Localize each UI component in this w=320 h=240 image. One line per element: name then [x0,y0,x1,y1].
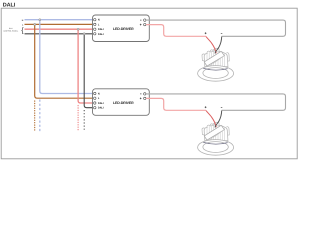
driver 2 terminal minus [140,93,146,95]
dotted continuation DALI red [77,106,79,131]
downlight luminaire 1 [198,48,234,81]
wire DALI red branch to driver 2 [78,29,93,103]
driver 1 terminal DALI 2 [94,33,104,36]
downlight luminaire 2 [198,122,234,155]
LED driver 1 [93,15,150,42]
luminaire 1 black lead [215,37,222,54]
driver 2 terminal DALI 2 [94,107,104,110]
driver 1 terminal DALI [94,28,104,31]
svg-text:DALI: DALI [98,107,104,110]
wire LED minus run 2 (gray) [146,94,285,110]
driver 2 terminal L [94,97,100,100]
dashed continuation N (blue) [39,100,41,132]
wire LED plus run 1 (pink) [146,25,206,37]
label plus at luminaire 2 [205,106,207,108]
wire L horizontal (brown) [25,23,94,25]
svg-text:DALI: DALI [98,102,104,105]
svg-text:DALI: DALI [3,2,16,8]
driver 2 terminal plus [140,97,146,99]
svg-text:DALI: DALI [98,28,104,31]
junction node N [39,19,41,21]
svg-text:N: N [98,19,100,22]
svg-text:CONTROL SIGNAL: CONTROL SIGNAL [3,30,18,33]
svg-text:DALI: DALI [98,33,104,36]
wire N horizontal (blue) [25,19,94,21]
luminaire 2 black lead [215,111,222,128]
wire LED plus run 2 (pink) [146,98,206,110]
wire DALI horizontal (red) [25,28,94,30]
driver 2 terminal DALI [94,102,104,105]
driver 1 terminal plus [140,23,146,25]
svg-text:LED-DRIVER: LED-DRIVER [113,27,134,31]
label minus at luminaire 2 [221,106,223,108]
driver 2 terminal N [94,92,100,95]
label minus at luminaire 1 [221,32,223,34]
svg-text:DALI: DALI [9,27,13,30]
driver 1 terminal L [94,23,100,26]
junction node DALI red [77,28,79,30]
wire DALI black branch to driver 2 [84,34,93,108]
junction node L [34,23,36,25]
wire N branch to driver 2 (blue) [40,20,94,94]
LED driver 2 [93,89,150,116]
junction node DALI black [83,33,85,35]
label plus at luminaire 1 [205,32,207,34]
driver 1 terminal minus [140,19,146,21]
svg-text:{: { [21,26,24,35]
svg-text:N: N [98,93,100,96]
svg-text:LED-DRIVER: LED-DRIVER [113,101,134,105]
wire LED minus run 1 (gray) [146,20,285,36]
luminaire 2 red lead [206,111,216,128]
wire L branch to driver 2 (brown) [35,24,94,98]
dotted continuation L (brown) [34,101,36,130]
driver 1 terminal N [94,19,100,22]
label DALI CONTROL SIGNAL [3,27,18,33]
dashed continuation DALI black [83,110,85,132]
luminaire 1 red lead [206,37,216,54]
svg-text:N: N [22,19,24,22]
wire DALI horizontal (black) [25,33,94,35]
